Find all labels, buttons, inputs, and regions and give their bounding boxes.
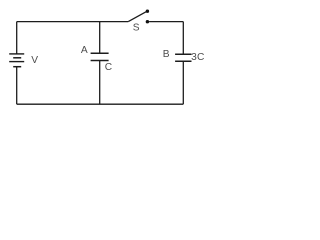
- battery plate short bottom: [13, 66, 21, 68]
- wire left vertical upper (top rail to battery): [16, 22, 18, 54]
- wire middle vertical upper (top rail to capacitor A): [99, 22, 101, 54]
- wire right vertical lower (capacitor B to bottom rail): [182, 61, 184, 104]
- capacitor A value C: [81, 45, 112, 73]
- capacitor A plate bottom: [91, 60, 109, 62]
- switch arm blade: [128, 12, 146, 22]
- wire bottom rail: [17, 103, 184, 105]
- svg-text:C: C: [197, 52, 204, 63]
- wire middle vertical lower (capacitor A to bottom rail): [99, 61, 101, 105]
- capacitor A plate top: [91, 52, 109, 54]
- battery plate long top: [9, 53, 24, 55]
- wire right vertical upper (top rail to capacitor B): [182, 22, 184, 55]
- wire top rail left segment: [17, 21, 129, 23]
- svg-text:C: C: [105, 62, 112, 73]
- switch contact dot lower: [146, 20, 149, 23]
- svg-text:A: A: [81, 45, 88, 56]
- switch S: [128, 10, 149, 34]
- wire left vertical lower (battery to bottom rail): [16, 67, 18, 105]
- svg-text:B: B: [163, 49, 170, 60]
- switch contact dot upper: [146, 10, 149, 13]
- capacitor B value 3C: [163, 49, 205, 63]
- battery plate long: [9, 61, 24, 63]
- capacitor B plate bottom: [175, 60, 191, 62]
- battery V: [9, 54, 38, 67]
- svg-text:S: S: [133, 23, 140, 34]
- capacitor B plate top: [175, 53, 191, 55]
- battery plate short: [13, 57, 21, 59]
- svg-text:V: V: [31, 55, 38, 66]
- wire top rail right segment: [149, 21, 183, 23]
